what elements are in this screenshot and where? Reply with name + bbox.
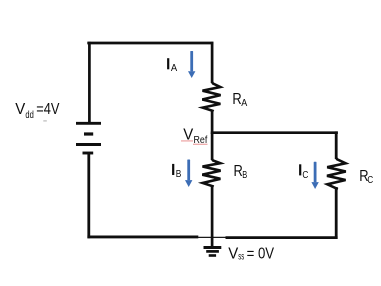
current arrow I_B [185, 160, 192, 188]
wire left vertical upper [88, 42, 91, 123]
battery V_dd plate 1 long [76, 122, 101, 125]
current arrow I_C [311, 162, 318, 189]
svg-text:C: C [367, 174, 373, 186]
wire V_Ref horizontal [211, 131, 338, 134]
label R_A [232, 91, 247, 109]
resistor R_A [202, 82, 220, 112]
node label V_Ref [183, 127, 207, 146]
artifact gray dash under 4 [43, 120, 47, 122]
resistor R_C [327, 158, 346, 190]
wire right vertical upper [335, 131, 338, 159]
wire R_A bottom stub [211, 111, 214, 134]
label I_B [172, 164, 181, 180]
battery V_dd plate 4 short [83, 152, 94, 155]
svg-text:=4V: =4V [36, 101, 60, 118]
svg-text:C: C [302, 169, 308, 181]
label I_C [299, 164, 309, 181]
ground bar 2 [206, 250, 219, 253]
wire top horizontal [87, 42, 213, 45]
battery V_dd plate 3 long [76, 143, 101, 146]
wire bottom left [87, 235, 198, 238]
spellcheck underline V [181, 140, 193, 142]
resistor R_B [202, 159, 220, 187]
current arrow I_A [188, 51, 195, 78]
svg-text:B: B [176, 168, 182, 180]
svg-text:B: B [242, 169, 247, 181]
label R_B [234, 163, 248, 181]
svg-text:A: A [171, 62, 177, 74]
ground bar 3 [209, 254, 216, 257]
label V_dd = 4V [15, 101, 60, 121]
wire bottom thin middle [198, 236, 336, 238]
svg-text:= 0V: = 0V [247, 245, 275, 262]
spellcheck underline Ref [193, 143, 208, 145]
wire right vertical lower [335, 187, 338, 239]
wire R_A top stub [211, 42, 214, 83]
ground bar 1 [204, 246, 222, 249]
wire R_B top stub [211, 133, 214, 160]
wire R_B bottom stub [211, 186, 214, 247]
svg-text:ss: ss [238, 250, 244, 262]
label I_A [167, 58, 177, 74]
label R_C [359, 168, 373, 186]
wire bottom right [226, 236, 338, 239]
battery V_dd plate 2 short [84, 132, 93, 135]
svg-text:dd: dd [25, 109, 34, 121]
svg-text:R: R [232, 91, 241, 108]
svg-text:V: V [15, 101, 26, 118]
wire left vertical lower [87, 153, 90, 238]
svg-text:A: A [241, 97, 247, 109]
label V_ss = 0V [228, 245, 274, 262]
